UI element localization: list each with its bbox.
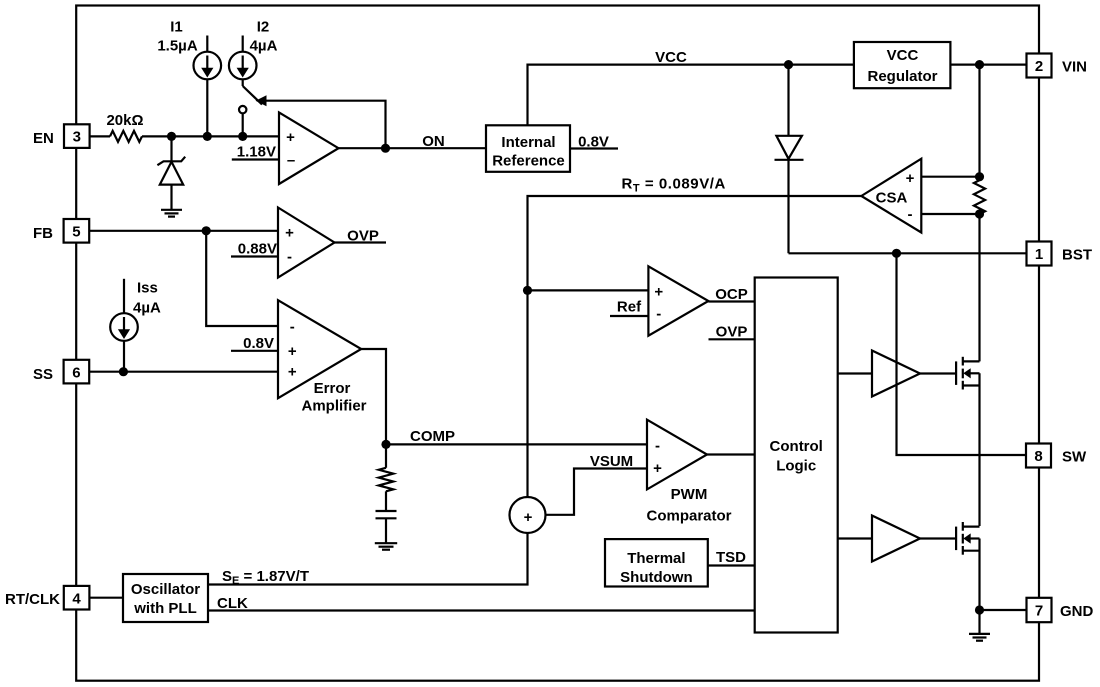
summing junction	[510, 497, 546, 533]
pin 7 GND	[1027, 598, 1094, 622]
svg-text:+: +	[288, 343, 297, 360]
wire GND	[980, 609, 1027, 611]
current source Iss	[110, 279, 161, 372]
wire FB to error amplifier - input	[206, 231, 278, 326]
node SS junction	[119, 367, 128, 376]
svg-text:PWM: PWM	[671, 486, 708, 503]
svg-text:BST: BST	[1062, 247, 1092, 264]
svg-text:6: 6	[72, 365, 80, 382]
wire VCC	[528, 49, 854, 125]
svg-text:Reference: Reference	[492, 153, 565, 170]
svg-text:Amplifier: Amplifier	[301, 398, 366, 415]
svg-text:ON: ON	[422, 133, 445, 150]
wire BST	[789, 252, 1027, 254]
svg-text:Logic: Logic	[776, 458, 816, 475]
svg-text:Comparator: Comparator	[646, 508, 731, 525]
resistor 20k	[106, 112, 143, 142]
svg-text:+: +	[286, 129, 295, 146]
op-amp Error Amplifier	[278, 300, 367, 414]
svg-text:-: -	[287, 249, 292, 266]
node EN-zener junction	[167, 132, 176, 141]
wire CLK	[208, 595, 755, 612]
svg-text:+: +	[288, 364, 297, 381]
svg-text:4µA: 4µA	[133, 300, 161, 317]
label Ref	[610, 299, 648, 317]
svg-text:-: -	[655, 438, 660, 455]
svg-text:4µA: 4µA	[250, 38, 278, 55]
comparator OVP (0.88V)	[278, 208, 335, 278]
transistor Q2 (low-side NMOS)	[956, 522, 979, 555]
node FB junction	[202, 226, 211, 235]
block VCC Regulator	[854, 42, 951, 88]
buffer low-side driver	[872, 516, 920, 562]
svg-text:CSA: CSA	[876, 190, 908, 207]
svg-text:VCC: VCC	[655, 49, 687, 66]
svg-text:Iss: Iss	[137, 280, 158, 297]
wire ON	[339, 133, 487, 150]
node comparator output	[381, 144, 390, 153]
op-amp CSA (current sense amplifier)	[861, 159, 921, 233]
ground (power)	[969, 610, 990, 641]
svg-text:Regulator: Regulator	[867, 68, 937, 85]
svg-text:OVP: OVP	[347, 228, 379, 245]
label 1.18V	[232, 144, 279, 161]
block Control Logic	[755, 278, 838, 633]
node VIN column junction	[975, 60, 984, 69]
wire pin 4 to oscillator	[89, 597, 123, 599]
pin 2 VIN	[1027, 54, 1088, 78]
svg-text:OVP: OVP	[716, 324, 748, 341]
current source I1	[157, 19, 221, 137]
svg-text:Thermal: Thermal	[627, 550, 685, 567]
svg-text:CLK: CLK	[217, 595, 248, 612]
wire VIN to sense resistor	[978, 65, 980, 177]
wire comparator feedback to switch	[256, 95, 386, 148]
diode (VCC to BST)	[775, 65, 804, 254]
svg-text:EN: EN	[33, 130, 54, 147]
node OCP input junction	[523, 286, 532, 295]
node BST junction	[892, 249, 901, 258]
wire high-side gate	[920, 372, 955, 374]
block Thermal Shutdown	[605, 539, 708, 586]
block Oscillator with PLL	[123, 574, 208, 622]
svg-text:+: +	[285, 225, 294, 242]
svg-text:VSUM: VSUM	[590, 453, 633, 470]
wire EN	[90, 135, 279, 137]
svg-text:Ref: Ref	[617, 299, 642, 316]
svg-text:GND: GND	[1060, 603, 1094, 620]
svg-text:+: +	[653, 460, 662, 477]
svg-text:–: –	[287, 152, 295, 169]
wire OCP + input	[528, 289, 649, 291]
svg-text:RT/CLK: RT/CLK	[5, 591, 60, 608]
ground (zener)	[161, 210, 182, 217]
wire CSA - input	[921, 213, 979, 215]
node I2 junction	[238, 132, 247, 141]
wire BST node down to SW	[897, 253, 1027, 455]
comparator OCP	[648, 266, 708, 335]
svg-text:0.8V: 0.8V	[243, 335, 274, 352]
svg-text:1.18V: 1.18V	[237, 144, 276, 161]
pin 6 SS	[33, 360, 89, 384]
node sense resistor top	[975, 172, 984, 181]
svg-text:FB: FB	[33, 225, 53, 242]
pin 3 EN	[33, 124, 90, 148]
svg-text:+: +	[906, 170, 915, 187]
wire COMP	[361, 349, 647, 445]
svg-text:3: 3	[73, 129, 81, 146]
switch (EN hysteresis select)	[239, 79, 262, 136]
svg-text:COMP: COMP	[410, 428, 455, 445]
pin 1 BST	[1027, 242, 1093, 266]
svg-text:-: -	[656, 306, 661, 323]
svg-text:7: 7	[1035, 603, 1043, 620]
pin 5 FB	[33, 219, 89, 243]
svg-text:Internal: Internal	[501, 134, 555, 151]
svg-text:VCC: VCC	[887, 47, 919, 64]
ground (COMP network)	[375, 543, 397, 550]
svg-text:-: -	[290, 319, 295, 336]
wire control logic to low-side driver	[838, 537, 872, 539]
svg-text:Control: Control	[770, 438, 823, 455]
svg-text:OCP: OCP	[715, 286, 748, 303]
transistor Q1 (high-side NMOS)	[956, 357, 979, 390]
svg-text:20kΩ: 20kΩ	[106, 112, 143, 129]
wire TSD	[708, 549, 755, 566]
svg-text:5: 5	[72, 224, 80, 241]
wire OVP output	[335, 228, 387, 245]
wire VSUM	[546, 453, 648, 515]
block Internal Reference	[486, 125, 570, 172]
svg-text:Shutdown: Shutdown	[620, 569, 692, 586]
resistor (current sense)	[974, 177, 985, 218]
wire SE (slope ramp)	[208, 533, 528, 587]
buffer high-side driver	[872, 351, 920, 397]
pin 8 SW	[1026, 444, 1087, 468]
svg-text:-: -	[908, 206, 913, 223]
wire OVP input stub	[709, 324, 755, 341]
wire OCP output	[708, 286, 754, 303]
svg-text:+: +	[654, 284, 663, 301]
wire low-side source down to GND node	[978, 539, 980, 611]
wire high-side source down to low-side drain (SW column)	[978, 373, 980, 526]
node sense resistor bottom	[975, 209, 984, 218]
wire VCC Regulator to VIN	[950, 63, 1026, 65]
node VCC-diode junction	[784, 60, 793, 69]
wire low-side gate	[920, 537, 955, 539]
svg-text:with PLL: with PLL	[133, 600, 197, 617]
node GND junction	[975, 605, 984, 614]
zener diode	[157, 136, 185, 209]
svg-text:+: +	[524, 509, 533, 526]
svg-text:I1: I1	[170, 19, 183, 36]
node I1 junction	[203, 132, 212, 141]
svg-text:I2: I2	[257, 19, 270, 36]
svg-text:SS: SS	[33, 366, 53, 383]
svg-text:VIN: VIN	[1062, 59, 1087, 76]
svg-text:4: 4	[72, 591, 81, 608]
wire VIN column down to high-side drain	[978, 214, 980, 361]
svg-text:0.88V: 0.88V	[238, 241, 277, 258]
wire control logic to high-side driver	[838, 372, 872, 374]
svg-text:1: 1	[1035, 246, 1043, 263]
wire FB	[89, 230, 279, 232]
svg-text:Error: Error	[314, 380, 351, 397]
svg-text:1.5µA: 1.5µA	[157, 38, 197, 55]
capacitor (COMP network)	[376, 511, 397, 543]
svg-text:SW: SW	[1062, 449, 1087, 466]
label 0.88V	[231, 241, 278, 258]
comparator PWM	[646, 420, 731, 525]
svg-text:Oscillator: Oscillator	[131, 581, 200, 598]
node COMP	[381, 440, 390, 449]
current source I2	[229, 19, 278, 80]
svg-text:TSD: TSD	[716, 549, 746, 566]
wire RT (CSA output)	[528, 176, 862, 498]
resistor (COMP network)	[379, 444, 394, 510]
wire PWM output	[707, 453, 755, 455]
svg-text:2: 2	[1035, 58, 1043, 75]
comparator U1 (EN, 1.18V)	[279, 112, 339, 184]
label 0.8V error amp reference	[231, 335, 278, 352]
svg-text:8: 8	[1034, 448, 1042, 465]
pin 4 RT/CLK	[5, 586, 89, 610]
label 0.8V internal reference output	[570, 134, 618, 151]
wire SS	[89, 371, 278, 373]
wire CSA + input	[921, 176, 979, 178]
